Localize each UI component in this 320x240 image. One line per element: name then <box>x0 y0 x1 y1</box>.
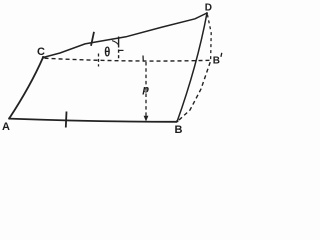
svg-text:θ: θ <box>104 44 110 59</box>
perpendicular height p dashed line <box>145 62 147 119</box>
vertex dot A <box>8 117 10 119</box>
vertex dot B <box>176 120 178 122</box>
prime mark of B' <box>220 53 223 57</box>
side AC <box>9 58 43 119</box>
svg-text:A: A <box>2 121 10 133</box>
right angle mark on vertical line <box>119 49 124 51</box>
side BD <box>177 13 207 122</box>
dashed line B to B' <box>179 61 211 120</box>
svg-text:D: D <box>205 3 212 14</box>
small dashed cross tick on CB' <box>98 54 100 67</box>
side AB <box>9 119 177 122</box>
svg-text:p: p <box>142 83 150 95</box>
vertex dot D <box>206 12 208 14</box>
vertical line from CD down at theta (solid top) <box>118 37 120 48</box>
svg-text:C: C <box>37 46 45 58</box>
svg-text:B: B <box>213 55 220 66</box>
vertical dashed continuation to CB' <box>118 50 120 61</box>
vertex dot C <box>42 56 45 59</box>
side CD <box>43 13 207 58</box>
angle arc theta <box>112 41 119 45</box>
dashed line D to B' <box>207 15 211 62</box>
arrowhead at bottom of p line <box>144 116 149 122</box>
svg-text:B: B <box>175 124 183 133</box>
tick mark on CD <box>91 32 94 46</box>
tick at top of p line <box>142 56 144 62</box>
dashed line C to B' <box>45 58 211 61</box>
tick mark on AB <box>65 112 68 128</box>
